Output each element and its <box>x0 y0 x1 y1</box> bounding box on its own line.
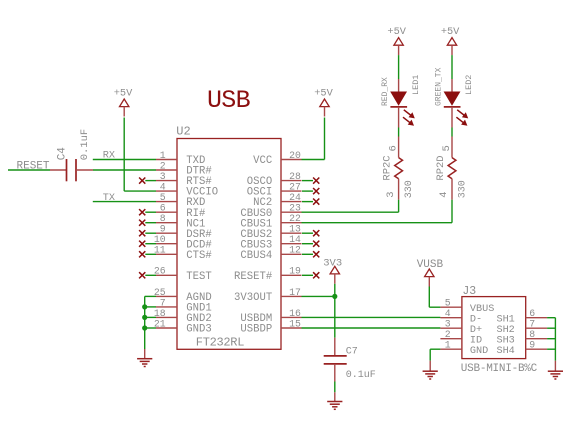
U2 pin 16 USBDM <box>281 316 302 318</box>
U2 pin 6 RI# <box>156 211 177 213</box>
no-connect X on U2 pin 27 <box>302 190 313 192</box>
U2 pin 28 OSCO <box>281 180 302 182</box>
U2 pin 12 CBUS4 <box>281 253 302 255</box>
svg-text:28: 28 <box>289 171 301 182</box>
wire CBUS0 pin 23 to RP2C <box>302 211 399 213</box>
svg-text:6: 6 <box>160 203 166 214</box>
svg-text:9: 9 <box>529 340 535 351</box>
wire GND pin 1 to ground <box>430 348 440 350</box>
no-connect X on U2 pin 9 <box>145 232 156 234</box>
svg-text:9: 9 <box>160 224 166 235</box>
svg-text:13: 13 <box>289 224 301 235</box>
svg-text:4: 4 <box>438 191 450 197</box>
U2 pin 4 VCCIO <box>156 190 177 192</box>
wire SH3 to shield ground <box>547 338 555 340</box>
wire 3V3 to 3V3OUT pin 17 <box>334 284 336 297</box>
U2 pin 5 RXD <box>156 201 177 203</box>
svg-text:5: 5 <box>441 145 453 151</box>
svg-text:330: 330 <box>457 180 468 198</box>
no-connect X on U2 pin 11 <box>145 253 156 255</box>
svg-text:C7: C7 <box>346 346 358 357</box>
U2 pin 2 DTR# <box>156 169 177 171</box>
svg-text:FT232RL: FT232RL <box>196 336 244 350</box>
svg-text:J3: J3 <box>462 285 476 298</box>
U2 pin 10 DCD# <box>156 243 177 245</box>
svg-text:ID: ID <box>470 335 482 346</box>
wire C4 to DTR# pin 2 <box>93 169 156 171</box>
svg-text:VBUS: VBUS <box>470 304 494 315</box>
wire VCC pin 20 to +5V <box>302 159 325 161</box>
svg-text:1: 1 <box>445 340 451 351</box>
svg-text:23: 23 <box>289 203 301 214</box>
svg-text:24: 24 <box>289 192 301 203</box>
capacitor C7 <box>334 338 336 356</box>
U2 pin 27 OSCI <box>281 190 302 192</box>
svg-text:RED_RX: RED_RX <box>381 77 390 106</box>
ground (U2 GND bus) <box>144 349 146 359</box>
svg-text:CTS#: CTS# <box>186 250 212 262</box>
U2 pin 26 TEST <box>156 274 177 276</box>
wire +5V to VCCIO pin 4 <box>123 118 125 192</box>
resistor RP2C 330 <box>398 137 400 158</box>
LED LED1 <box>398 79 400 92</box>
svg-text:+5V: +5V <box>114 87 133 99</box>
svg-text:SH2: SH2 <box>496 325 514 336</box>
svg-text:GREEN_TX: GREEN_TX <box>434 67 443 106</box>
J3 pin 5 VBUS <box>440 306 462 308</box>
svg-text:19: 19 <box>289 266 301 277</box>
wire +5V to LED2 <box>451 55 453 79</box>
wire SH4 to shield ground <box>547 348 555 350</box>
svg-text:4: 4 <box>445 308 451 319</box>
wire VUSB to VBUS pin 5 <box>428 287 430 308</box>
wire SH2 to shield ground <box>547 327 555 329</box>
U2 pin 24 NC2 <box>281 201 302 203</box>
J3 pin 6 SH1 <box>526 317 547 319</box>
no-connect X on U2 pin 6 <box>145 211 156 213</box>
svg-text:6: 6 <box>529 308 535 319</box>
svg-text:3V3OUT: 3V3OUT <box>234 292 272 304</box>
svg-text:0.1uF: 0.1uF <box>346 370 376 381</box>
connector J3 box <box>462 297 526 359</box>
wire CBUS1 pin 22 to RP2D <box>302 222 453 224</box>
wire USBDM pin 16 to D- <box>302 316 441 318</box>
svg-text:C4: C4 <box>57 147 69 161</box>
svg-text:6: 6 <box>388 145 400 151</box>
LED LED2 <box>451 79 453 92</box>
wire GND2 pin 18 <box>145 316 156 318</box>
wire RESET to C4 <box>8 169 50 171</box>
svg-text:RESET#: RESET# <box>234 271 273 283</box>
svg-text:VCC: VCC <box>253 155 272 167</box>
svg-text:27: 27 <box>289 182 301 193</box>
U2 pin 14 CBUS3 <box>281 243 302 245</box>
U2 pin 15 USBDP <box>281 327 302 329</box>
ground (J3 GND) <box>429 361 431 371</box>
svg-text:2: 2 <box>445 329 451 340</box>
svg-text:RP2D: RP2D <box>435 155 447 180</box>
J3 pin 2 ID <box>440 338 462 340</box>
J3 pin 8 SH3 <box>526 338 547 340</box>
U2 pin 25 AGND <box>156 295 177 297</box>
wire TX to RXD pin 5 <box>93 201 156 203</box>
svg-text:D-: D- <box>470 314 482 325</box>
no-connect X on U2 pin 19 <box>302 274 313 276</box>
no-connect X on U2 pin 10 <box>145 243 156 245</box>
svg-text:17: 17 <box>289 287 301 298</box>
svg-text:TEST: TEST <box>186 271 211 283</box>
U2 pin 3 RTS# <box>156 180 177 182</box>
LED LED1 light arrows <box>403 110 415 126</box>
svg-text:USB-MINI-B%C: USB-MINI-B%C <box>461 363 538 375</box>
ground (J3 shield) <box>554 361 556 371</box>
svg-text:22: 22 <box>289 213 301 224</box>
wire GND3 pin 21 <box>145 327 156 329</box>
resistor RP2D 330 <box>451 137 453 158</box>
svg-text:8: 8 <box>160 213 166 224</box>
U2 pin 1 TXD <box>156 159 177 161</box>
U2 pin 9 DSR# <box>156 232 177 234</box>
svg-text:SH3: SH3 <box>496 335 514 346</box>
U2 pin 22 CBUS1 <box>281 222 302 224</box>
U2 pin 11 CTS# <box>156 253 177 255</box>
svg-text:3: 3 <box>445 319 451 330</box>
svg-text:5: 5 <box>160 192 166 203</box>
no-connect X on U2 pin 26 <box>145 274 156 276</box>
U2 pin 18 GND2 <box>156 316 177 318</box>
svg-text:RP2C: RP2C <box>382 155 394 180</box>
J3 pin 4 D- <box>440 317 462 319</box>
svg-text:LED2: LED2 <box>464 75 474 95</box>
ground bus vertical wire <box>144 296 146 349</box>
junction GND1 <box>142 304 147 309</box>
U2 pin 21 GND3 <box>156 327 177 329</box>
svg-text:1: 1 <box>160 150 166 161</box>
svg-text:2: 2 <box>160 160 166 171</box>
U2 pin 8 NC1 <box>156 222 177 224</box>
svg-text:GND3: GND3 <box>186 324 211 336</box>
svg-text:8: 8 <box>529 329 535 340</box>
no-connect X on U2 pin 24 <box>302 201 313 203</box>
no-connect X on U2 pin 14 <box>302 243 313 245</box>
J3 pin 1 GND <box>440 348 462 350</box>
svg-text:7: 7 <box>160 297 166 308</box>
svg-text:4: 4 <box>160 182 166 193</box>
svg-text:5: 5 <box>445 298 451 309</box>
svg-text:14: 14 <box>289 234 301 245</box>
no-connect X on U2 pin 12 <box>302 253 313 255</box>
no-connect X on U2 pin 8 <box>145 222 156 224</box>
wire +5V to LED1 <box>398 55 400 79</box>
svg-text:+5V: +5V <box>387 26 406 38</box>
svg-text:USBDP: USBDP <box>240 324 272 336</box>
junction GND2 <box>142 315 147 320</box>
svg-text:15: 15 <box>289 318 301 329</box>
no-connect X on U2 pin 28 <box>302 180 313 182</box>
U2 pin 19 RESET# <box>281 274 302 276</box>
svg-text:+5V: +5V <box>441 26 460 38</box>
svg-text:12: 12 <box>289 245 301 256</box>
no-connect X on U2 pin 13 <box>302 232 313 234</box>
wire RX to TXD pin 1 <box>93 159 156 161</box>
wire AGND pin 25 to ground bus <box>145 295 156 297</box>
wire LED1 to resistor RP2C <box>398 128 400 137</box>
svg-text:3: 3 <box>385 191 397 197</box>
svg-text:SH1: SH1 <box>496 314 514 325</box>
svg-text:LED1: LED1 <box>411 75 421 95</box>
capacitor C4 <box>50 169 67 171</box>
svg-text:U2: U2 <box>176 125 190 139</box>
svg-text:+5V: +5V <box>314 87 333 99</box>
svg-text:GND: GND <box>470 346 488 357</box>
U2 pin 7 GND1 <box>156 306 177 308</box>
svg-text:USB: USB <box>207 86 251 115</box>
wire GND1 pin 7 <box>145 306 156 308</box>
wire C7 to ground <box>334 382 336 393</box>
J3 pin 3 D+ <box>440 327 462 329</box>
U2 pin 13 CBUS2 <box>281 232 302 234</box>
U2 pin 20 VCC <box>281 159 302 161</box>
svg-text:330: 330 <box>404 180 415 198</box>
svg-text:20: 20 <box>289 150 301 161</box>
junction GND3 <box>142 325 147 330</box>
IC U2 FT232RL symbol box <box>177 139 281 350</box>
svg-text:7: 7 <box>529 319 535 330</box>
J3 pin 7 SH2 <box>526 327 547 329</box>
U2 pin 17 3V3OUT <box>281 295 302 297</box>
wire USBDP pin 15 to D+ <box>302 327 441 329</box>
svg-text:D+: D+ <box>470 325 482 336</box>
junction node 3V3OUT <box>332 294 337 299</box>
svg-text:16: 16 <box>289 308 301 319</box>
ground (C7) <box>334 392 336 401</box>
wire SH1 to shield ground <box>547 317 555 319</box>
wire 3V3OUT down to C7 <box>334 296 336 337</box>
LED LED2 light arrows <box>456 110 468 126</box>
svg-text:3V3: 3V3 <box>323 257 342 269</box>
J3 pin 9 SH4 <box>526 348 547 350</box>
no-connect X on U2 pin 3 <box>145 180 156 182</box>
svg-text:3: 3 <box>160 171 166 182</box>
U2 pin 23 CBUS0 <box>281 211 302 213</box>
svg-text:CBUS4: CBUS4 <box>240 250 272 262</box>
wire LED2 to resistor RP2D <box>451 128 453 137</box>
svg-text:0.1uF: 0.1uF <box>79 129 91 161</box>
svg-text:SH4: SH4 <box>496 346 514 357</box>
wire shield bus vertical <box>554 318 556 361</box>
